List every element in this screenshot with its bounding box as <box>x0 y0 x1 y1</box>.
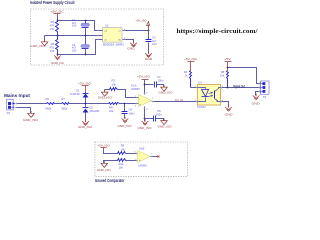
resistor R6 <box>46 97 55 110</box>
main wire <box>16 103 139 105</box>
svg-text:LM393: LM393 <box>138 164 147 168</box>
svg-text:+5V_ISO: +5V_ISO <box>78 81 92 85</box>
svg-text:16V: 16V <box>72 49 77 52</box>
op-amp U1B LM393 <box>135 146 153 167</box>
svg-text:C3: C3 <box>152 35 156 39</box>
svg-text:16V: 16V <box>72 25 77 28</box>
power flag +5V_ISO at R4 <box>184 57 198 71</box>
svg-text:100n: 100n <box>156 112 162 116</box>
svg-text:+O: +O <box>118 31 121 33</box>
junction at diode node <box>85 103 87 105</box>
svg-text:-: - <box>139 151 140 155</box>
svg-text:10k: 10k <box>112 82 117 86</box>
wire to left earth <box>44 36 46 42</box>
diode D1 1N4148 <box>70 89 89 104</box>
wire P1 pin3 to ground <box>256 92 261 96</box>
svg-text:1W: 1W <box>50 27 54 31</box>
svg-text:+: + <box>139 158 141 162</box>
svg-text:+5V_ISO: +5V_ISO <box>137 75 151 79</box>
wire rail A top <box>58 21 103 31</box>
capacitor C5 <box>145 109 164 122</box>
svg-text:GND_ISO: GND_ISO <box>159 90 173 94</box>
svg-text:D2: D2 <box>90 105 94 109</box>
wire P2 pin2 to ground <box>16 108 31 114</box>
ground at P1 <box>252 94 260 106</box>
svg-text:+5V_ISO: +5V_ISO <box>184 57 198 61</box>
wire mid rail <box>45 35 103 37</box>
svg-text:470: 470 <box>50 23 55 27</box>
svg-text:+5V_DC: +5V_DC <box>50 10 64 14</box>
svg-text:16V: 16V <box>152 42 157 46</box>
svg-text:GND_ISO: GND_ISO <box>97 168 111 172</box>
svg-text:Signal Out: Signal Out <box>233 84 245 88</box>
ground at C4 <box>159 85 173 95</box>
svg-text:GND: GND <box>252 101 260 105</box>
resistor R3 from GND to inverting input <box>105 79 139 98</box>
dashed border of isolated power supply section <box>31 9 164 65</box>
emitter wire to ground <box>221 102 229 108</box>
ground GND_ISO left <box>30 40 48 48</box>
wire bottom rail <box>58 40 103 55</box>
svg-text:GND: GND <box>145 57 153 61</box>
svg-text:470: 470 <box>50 45 55 49</box>
svg-text:GND_ISO: GND_ISO <box>23 118 38 122</box>
svg-text:R2: R2 <box>51 42 55 46</box>
svg-text:U2: U2 <box>105 24 109 28</box>
svg-text:4u7: 4u7 <box>152 39 157 43</box>
wire U2 0V to ground <box>123 40 134 44</box>
svg-text:1N4148: 1N4148 <box>70 92 80 96</box>
resistor R9 <box>118 144 138 155</box>
wire U2 +Out to +5V_ISO node <box>123 30 149 32</box>
power flag +5V_ISO at D1 <box>78 81 92 93</box>
svg-text:R9: R9 <box>121 144 125 148</box>
svg-text:100n: 100n <box>158 79 164 83</box>
power flag +5V_ISO at U1A <box>137 75 151 80</box>
svg-text:Mains Input: Mains Input <box>4 93 31 98</box>
svg-text:560k: 560k <box>61 106 67 110</box>
svg-text:+5V_ISO: +5V_ISO <box>97 143 110 147</box>
capacitor C6 <box>122 104 135 119</box>
svg-text:R10: R10 <box>119 162 124 166</box>
power flag +5V_ISO in unused section <box>97 143 117 153</box>
connector P1 <box>260 81 270 99</box>
svg-text:Unused Comparator: Unused Comparator <box>95 178 125 183</box>
svg-text:R5: R5 <box>221 70 225 74</box>
diode D2 1N4148 <box>83 104 100 122</box>
power flag +5V_ISO (arrow up) <box>136 19 150 31</box>
svg-text:GND_ISO: GND_ISO <box>78 125 92 129</box>
resistor R5 <box>220 70 229 88</box>
ground at C5 <box>158 118 172 128</box>
DC-DC converter U2 B0505S-1WR2 <box>103 24 127 47</box>
svg-text:GND: GND <box>225 112 233 116</box>
svg-text:10k: 10k <box>121 147 126 151</box>
svg-text:R7: R7 <box>61 97 65 101</box>
svg-text:U1B: U1B <box>139 146 145 150</box>
svg-text:GND: GND <box>127 46 135 50</box>
svg-text:B0505S-1WR2: B0505S-1WR2 <box>103 42 124 46</box>
connector P2 <box>7 99 15 115</box>
svg-text:R3: R3 <box>112 79 116 83</box>
capacitor C1 <box>72 19 90 35</box>
svg-text:+5V_ISO: +5V_ISO <box>136 19 148 23</box>
svg-text:R8: R8 <box>109 105 113 109</box>
junction at collector node <box>227 87 229 89</box>
op-amp U1A LM393 <box>131 83 154 111</box>
pin connection crosses <box>16 30 261 162</box>
svg-text:10k: 10k <box>119 166 124 170</box>
resistor R4 <box>184 70 198 88</box>
wire +5V to P1 pin1 <box>228 68 261 84</box>
U1A V+ wire <box>144 80 146 95</box>
svg-text:100n: 100n <box>129 111 135 115</box>
ground under C3 <box>145 51 153 61</box>
svg-text:GND_ISO: GND_ISO <box>118 124 132 128</box>
svg-text:R4: R4 <box>184 70 188 74</box>
svg-text:1W: 1W <box>50 49 54 53</box>
dashed border unused comparator section <box>95 142 188 176</box>
svg-text:R6: R6 <box>46 97 50 101</box>
ground under U2 <box>127 41 137 51</box>
optocoupler U3 PC817 <box>195 80 224 109</box>
svg-text:560k: 560k <box>46 106 52 110</box>
svg-text:GND_DC: GND_DC <box>51 61 64 65</box>
svg-text:+5V: +5V <box>224 57 231 61</box>
svg-text:10k: 10k <box>220 73 225 77</box>
svg-text:10k: 10k <box>109 109 114 113</box>
svg-text:Cmp_Out: Cmp_Out <box>175 98 184 102</box>
comparator output wire / node Cmp_Out <box>152 101 198 103</box>
svg-text:1N4148: 1N4148 <box>90 109 100 113</box>
ground at U1A V- <box>138 119 152 130</box>
svg-text:PC817: PC817 <box>198 105 207 109</box>
junction dots <box>57 20 87 56</box>
svg-text:LM393: LM393 <box>131 87 140 91</box>
resistor R10 <box>118 159 138 170</box>
svg-text:C5: C5 <box>157 109 161 113</box>
ground at R3 <box>98 90 112 100</box>
junction at U1A V- <box>144 118 146 120</box>
svg-text:C4: C4 <box>157 75 161 79</box>
resistor R8 series to comparator <box>109 103 120 113</box>
U1A V- wire <box>144 107 146 122</box>
svg-text:-: - <box>139 96 140 100</box>
svg-text:https://simple-circuit.com/: https://simple-circuit.com/ <box>177 28 258 35</box>
junction at C6 node <box>124 103 126 105</box>
svg-text:GND_ISO: GND_ISO <box>98 96 112 100</box>
ground at opto emitter <box>225 105 233 116</box>
ground under C6 <box>118 117 132 128</box>
resistor R2 <box>50 36 59 55</box>
svg-text:U3: U3 <box>198 80 202 84</box>
svg-text:GND_ISO: GND_ISO <box>158 124 172 128</box>
svg-text:GND_ISO: GND_ISO <box>138 126 152 130</box>
U1B output no-connect <box>151 156 160 158</box>
junction at +5V_ISO node <box>148 30 150 32</box>
capacitor C2 <box>72 36 90 55</box>
capacitor C4 <box>145 75 164 88</box>
svg-text:Isolated Power Supply Circuit: Isolated Power Supply Circuit <box>30 0 75 5</box>
resistor R7 <box>61 97 69 110</box>
svg-text:C6: C6 <box>129 108 133 112</box>
svg-text:P1: P1 <box>263 95 267 99</box>
svg-text:GND_ISO: GND_ISO <box>30 44 45 48</box>
junction at U1A V+ <box>144 84 146 86</box>
svg-text:+: + <box>139 102 141 106</box>
power flag +5V with branch <box>224 57 232 71</box>
power flag +5V_DC <box>50 10 64 21</box>
ground GND_ISO in unused section <box>97 161 118 173</box>
collector wire to P1 <box>221 87 261 89</box>
capacitor C3 <box>146 31 157 54</box>
svg-text:P2: P2 <box>7 111 11 115</box>
svg-text:R1: R1 <box>51 20 55 24</box>
ground GND_ISO under P2 <box>23 111 38 122</box>
resistor R1 <box>50 20 59 36</box>
ground under D2 <box>78 119 92 129</box>
svg-text:D1: D1 <box>76 89 80 93</box>
junction at +5V branch <box>227 67 229 69</box>
ground under R2 <box>51 54 64 65</box>
